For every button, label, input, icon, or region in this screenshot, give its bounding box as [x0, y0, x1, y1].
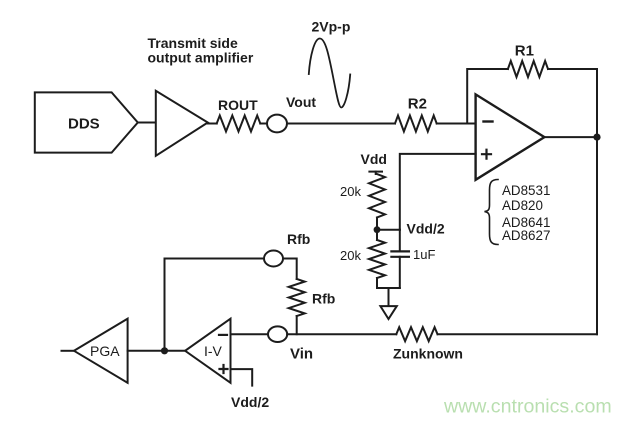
svg-text:Vdd: Vdd [361, 151, 387, 167]
wire amp to ROUT [208, 123, 217, 125]
svg-text:20k: 20k [340, 184, 361, 199]
wire Rfb resistor to Vin wire [296, 316, 298, 334]
PGA amplifier [74, 319, 128, 383]
wire Zunknown to right rail [438, 333, 598, 335]
resistor Rfb [289, 279, 305, 316]
resistor ROUT [217, 116, 261, 132]
capacitor C1 top lead [399, 230, 401, 252]
svg-text:output amplifier: output amplifier [148, 49, 254, 65]
node Vin (connector ellipse) [268, 326, 287, 342]
node Rfb (connector ellipse) [264, 251, 283, 267]
wire right rail vertical [596, 69, 598, 334]
resistor Zunknown [396, 327, 437, 341]
transmit amplifier A1 [156, 91, 208, 156]
svg-text:Vdd/2: Vdd/2 [407, 221, 445, 237]
I-V minus sign [219, 334, 227, 336]
svg-text:DDS: DDS [68, 116, 100, 133]
svg-text:1uF: 1uF [413, 247, 435, 262]
Vdd terminal bar [369, 171, 382, 173]
capacitor C1 plates [391, 251, 409, 256]
svg-text:Vout: Vout [286, 94, 316, 110]
I-V plus sign [220, 365, 228, 373]
wire PGA to I-V [128, 350, 186, 352]
wire feedback top horizontal [165, 258, 265, 260]
wire 20k lower to bottom [376, 278, 378, 288]
op-amp U1 minus sign [484, 120, 493, 122]
svg-text:Zunknown: Zunknown [393, 346, 463, 362]
svg-text:2Vp-p: 2Vp-p [312, 19, 351, 35]
svg-text:R1: R1 [515, 43, 534, 60]
wire I-V minus input [231, 333, 269, 335]
wire junction to cap rail [377, 229, 400, 231]
wire ROUT to Vout node [260, 123, 267, 125]
wire Vdd to 20k [375, 172, 377, 174]
op-amp I-V [185, 319, 230, 383]
wire R1 to right rail [548, 68, 597, 70]
svg-text:PGA: PGA [90, 343, 120, 359]
brace for op-amp part list [485, 180, 499, 245]
wire DDS to amp [138, 122, 156, 124]
svg-text:AD8531: AD8531 [502, 183, 550, 198]
wire op-amp output [544, 136, 597, 138]
wire Vout to R2 [287, 123, 395, 125]
svg-text:Rfb: Rfb [287, 231, 310, 247]
svg-text:Vin: Vin [290, 346, 313, 363]
DDS block [35, 92, 138, 152]
op-amp U1 plus sign [482, 150, 491, 159]
junction output node [593, 134, 600, 141]
wire PGA output stub [62, 350, 75, 352]
junction feedback node [161, 347, 168, 354]
svg-text:R2: R2 [408, 95, 427, 112]
capacitor C1 bottom lead [399, 257, 401, 288]
wire R2 to op-amp minus input [437, 123, 476, 125]
svg-text:ROUT: ROUT [218, 97, 258, 113]
resistor 20k lower [369, 240, 385, 278]
wire I-V plus input [231, 369, 253, 386]
resistor 20k upper [369, 174, 385, 218]
wire Vin to Zunknown [287, 333, 396, 335]
junction Vdd/2 node [374, 226, 381, 233]
resistor R1 [508, 61, 548, 77]
svg-text:Vdd/2: Vdd/2 [231, 394, 269, 410]
sine wave 2Vp-p [309, 39, 350, 108]
svg-text:I-V: I-V [204, 343, 223, 359]
wire ground stub [388, 288, 390, 306]
wire 20k to junction [376, 218, 378, 241]
wire op-amp plus input [400, 154, 476, 230]
op-amp U1 [476, 94, 545, 179]
svg-text:www.cntronics.com: www.cntronics.com [443, 396, 612, 418]
resistor R2 [395, 116, 437, 132]
svg-text:AD8627: AD8627 [502, 228, 550, 243]
wire feedback vertical [164, 259, 166, 351]
svg-text:20k: 20k [340, 248, 361, 263]
svg-text:Rfb: Rfb [312, 291, 335, 307]
wire bottom of divider [377, 287, 400, 289]
wire feedback vertical left [467, 69, 508, 124]
ground [380, 306, 396, 319]
node Vout (connector ellipse) [267, 115, 287, 133]
svg-text:AD820: AD820 [502, 198, 543, 213]
wire Rfb node to resistor [283, 259, 297, 280]
